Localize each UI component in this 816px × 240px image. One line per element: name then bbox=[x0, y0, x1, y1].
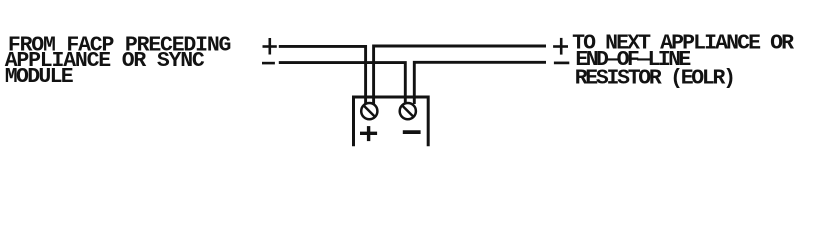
terminal label - bbox=[403, 130, 421, 134]
polarity mark + (right output) bbox=[553, 38, 568, 55]
wire: positive in, from left to appliance + terminal bbox=[279, 46, 366, 104]
polarity mark + (left input) bbox=[263, 38, 277, 55]
net label: FROM FACP PRECEDING APPLIANCE OR SYNC MODULE bbox=[5, 34, 231, 90]
terminal label + bbox=[360, 126, 377, 141]
polarity mark - (right output) bbox=[554, 62, 569, 65]
wire: positive out, from appliance + terminal to right bbox=[374, 46, 546, 104]
notification appliance box bbox=[354, 97, 429, 146]
polarity mark - (left input) bbox=[262, 62, 275, 65]
wire: negative in, from left to appliance - terminal bbox=[279, 63, 406, 104]
svg-text:MODULE: MODULE bbox=[5, 65, 74, 89]
wire: negative out, from appliance - terminal to right bbox=[414, 62, 546, 104]
svg-text:RESISTOR (EOLR): RESISTOR (EOLR) bbox=[575, 67, 734, 91]
screw terminal (+) of appliance bbox=[361, 103, 377, 119]
screw terminal (-) of appliance bbox=[400, 103, 416, 119]
net label: TO NEXT APPLIANCE OR END-OF-LINE RESISTOR (EOLR) bbox=[572, 32, 794, 91]
